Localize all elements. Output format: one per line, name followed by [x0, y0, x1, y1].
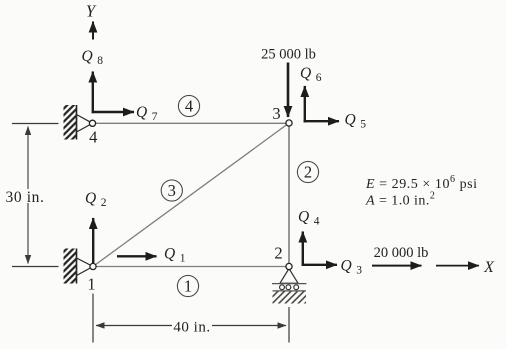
pin support wall at node 1	[64, 249, 77, 284]
dimension label 30 in	[5, 189, 47, 206]
roller support ground hatch	[273, 292, 307, 304]
roller support triangle at node 2	[280, 269, 298, 284]
X axis arrow	[436, 265, 479, 267]
dimension 40 in line right segment	[212, 325, 286, 327]
dimension 40 in extension line left	[92, 294, 94, 343]
svg-text:Q4: Q4	[298, 208, 320, 227]
force arrow Q2	[92, 218, 94, 264]
node 2	[286, 263, 292, 269]
svg-text:Y: Y	[86, 2, 97, 21]
dimension 30 in extension line top	[12, 123, 59, 125]
wire element 3 member line	[93, 123, 289, 267]
svg-text:E = 29.5 × 106 psi: E = 29.5 × 106 psi	[365, 174, 478, 192]
force arrow Q5	[304, 120, 339, 122]
pin support triangle at node 4	[77, 115, 93, 133]
force arrow Q3	[302, 264, 337, 266]
dimension 30 in extension line bottom	[12, 266, 59, 268]
node 3	[286, 120, 292, 126]
load arrow 20000 lb	[372, 265, 422, 267]
element circle 4	[178, 95, 199, 116]
wire element 4 member line	[93, 122, 290, 124]
roller 1	[280, 285, 285, 290]
wire element 2 member line	[288, 123, 290, 267]
dimension 40 in line left segment	[96, 325, 172, 327]
svg-text:Q7: Q7	[136, 104, 158, 123]
svg-text:20 000 lb: 20 000 lb	[374, 245, 429, 261]
Y axis arrow	[92, 22, 94, 40]
roller 3	[294, 285, 299, 290]
force arrow Q8	[92, 72, 94, 114]
force arrow Q7	[92, 111, 134, 113]
element circle 3	[161, 180, 182, 201]
pin support wall at node 4	[64, 105, 77, 140]
roller 2	[286, 285, 291, 290]
force arrow Q6	[304, 86, 306, 122]
node 1	[90, 263, 96, 269]
svg-text:25 000 lb: 25 000 lb	[261, 47, 316, 63]
svg-text:40 in.: 40 in.	[173, 320, 210, 336]
svg-text:A = 1.0 in.2: A = 1.0 in.2	[365, 191, 435, 209]
roller support upper line	[272, 283, 307, 285]
svg-text:4: 4	[185, 97, 193, 116]
svg-text:Q6: Q6	[300, 65, 322, 84]
svg-text:4: 4	[89, 128, 97, 147]
svg-text:X: X	[483, 259, 495, 276]
svg-text:Q5: Q5	[345, 111, 367, 130]
svg-text:Q1: Q1	[164, 246, 186, 265]
element circle 1	[177, 275, 198, 296]
pin support triangle at node 1	[77, 258, 94, 276]
roller support lower line	[273, 290, 307, 292]
svg-text:2: 2	[274, 244, 282, 263]
svg-text:3: 3	[168, 181, 176, 200]
force arrow Q4	[302, 232, 304, 267]
svg-text:1: 1	[184, 277, 192, 296]
svg-text:Q2: Q2	[85, 190, 107, 209]
element circle 2	[297, 161, 318, 182]
svg-text:1: 1	[87, 275, 95, 294]
node 4	[89, 120, 95, 126]
load arrow 25000 lb	[287, 63, 290, 118]
svg-text:30 in.: 30 in.	[6, 189, 45, 206]
dimension 40 in extension line right	[288, 307, 290, 343]
svg-text:3: 3	[272, 104, 280, 123]
svg-text:Q8: Q8	[82, 48, 104, 67]
wire element 1 member line	[93, 266, 289, 268]
dimension 30 in line	[27, 127, 29, 264]
svg-text:2: 2	[304, 163, 312, 182]
svg-text:Q3: Q3	[341, 258, 363, 277]
force arrow Q1	[117, 255, 157, 257]
